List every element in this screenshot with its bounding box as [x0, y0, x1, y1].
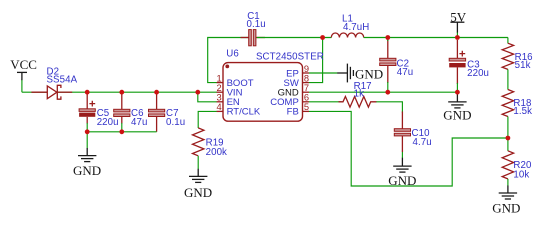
pin 2 VIN [217, 83, 243, 99]
svg-text:6: 6 [304, 93, 309, 103]
svg-text:8: 8 [304, 73, 309, 83]
ground below R19 [184, 169, 212, 200]
wire VCC stem green [21, 80, 23, 93]
svg-text:4: 4 [217, 102, 222, 112]
svg-text:51k: 51k [515, 60, 531, 71]
svg-text:SCT2450STER: SCT2450STER [256, 52, 324, 63]
inductor L1 4.7uH [331, 33, 363, 38]
capacitor C3 220u (polarized) [449, 40, 465, 84]
svg-text:4.7u: 4.7u [413, 137, 432, 148]
svg-text:0.1u: 0.1u [166, 117, 185, 128]
power port VCC [10, 57, 37, 80]
svg-text:200k: 200k [206, 147, 227, 158]
diode D2 SS54A [31, 85, 72, 99]
capacitor C1 0.1u [241, 30, 266, 46]
pin 7 GND [278, 83, 309, 99]
wire 5V stem green [456, 32, 458, 38]
capacitor C5 (polarized) [79, 92, 95, 123]
svg-text:FB: FB [287, 107, 299, 118]
resistor R20 10k [502, 151, 513, 179]
wire R16 to R18 [507, 69, 509, 89]
junction FB divider [506, 136, 511, 141]
svg-text:SS54A: SS54A [47, 75, 78, 86]
wire R18 to junction [507, 117, 509, 151]
resistor R19 200k [193, 128, 204, 156]
capacitor C10 4.7u [394, 112, 410, 153]
power port 5V [450, 9, 467, 32]
svg-text:3: 3 [217, 93, 222, 103]
wire C6 bottom [121, 123, 123, 132]
svg-text:RT/CLK: RT/CLK [227, 107, 261, 118]
junction C7 top [154, 90, 159, 95]
capacitor C2 47u [380, 40, 396, 83]
svg-text:7: 7 [304, 83, 309, 93]
junction C6 top [119, 90, 124, 95]
wire GND pin 7 rail [309, 91, 457, 93]
svg-text:VCC: VCC [10, 57, 37, 72]
pin 9 EP [286, 64, 309, 80]
wire C2 bottom [387, 82, 389, 92]
wire L1 to 5V rail corner [364, 37, 508, 39]
junction C3 bottom [455, 90, 460, 95]
svg-text:10k: 10k [513, 170, 529, 181]
junction C2 bottom [385, 90, 390, 95]
pin 6 COMP [270, 93, 309, 109]
svg-text:GND: GND [355, 67, 383, 82]
pin 5 FB [287, 102, 309, 118]
wire C5 bottom [86, 123, 88, 132]
svg-text:220u: 220u [467, 68, 489, 79]
svg-text:GND: GND [184, 185, 212, 200]
ground sideways at EP [337, 64, 383, 83]
svg-text:4.7uH: 4.7uH [343, 22, 369, 33]
svg-text:5: 5 [304, 102, 309, 112]
svg-text:0.1u: 0.1u [247, 19, 266, 30]
wire BOOT loop up to C1 [208, 38, 249, 83]
wire C10 to ground [401, 152, 403, 158]
svg-text:1k: 1k [354, 88, 364, 99]
ground below C3 [443, 92, 471, 123]
pin 1 BOOT [217, 73, 254, 89]
junction SW node [320, 35, 325, 40]
wire EP to sideways ground [309, 72, 337, 74]
wire COMP to R17 [309, 101, 341, 103]
svg-text:GND: GND [492, 201, 520, 216]
wire SW node down to pin 8 [309, 38, 323, 83]
resistor R17 1k [339, 97, 377, 108]
pin 8 SW [283, 73, 309, 89]
wire R19 to ground [197, 156, 199, 169]
wire main VCC rail to VIN [22, 91, 217, 93]
wire RT/CLK to R19 [198, 111, 217, 128]
resistor R18 1.5k [502, 90, 513, 117]
junction C5 top [85, 90, 90, 95]
wire FB route down and to divider [309, 111, 508, 186]
IC U6 SCT2450STER body [223, 63, 303, 122]
pin 3 EN [217, 93, 240, 109]
wire C3 bottom [456, 83, 458, 92]
junction C6 bottom [119, 129, 124, 134]
pin 4 RT/CLK [217, 102, 261, 118]
svg-text:220u: 220u [97, 117, 119, 128]
wire GND stem below C5 [86, 132, 88, 149]
svg-text:GND: GND [73, 163, 101, 178]
svg-text:9: 9 [304, 64, 309, 74]
wire EN branch vertical [198, 92, 217, 102]
capacitor C7 [149, 92, 165, 132]
ground below C5 [73, 148, 101, 178]
svg-text:1.5k: 1.5k [513, 106, 532, 117]
resistor R16 51k [502, 43, 513, 69]
svg-text:U6: U6 [226, 48, 239, 59]
svg-text:1: 1 [217, 73, 222, 83]
ground below C10 [388, 158, 416, 188]
svg-text:47u: 47u [397, 67, 413, 78]
wire capacitor bottom rail [87, 131, 156, 133]
junction L1 C2 top [385, 35, 390, 40]
junction 5V C3 top [455, 35, 460, 40]
svg-text:2: 2 [217, 83, 222, 93]
junction C5 bottom [85, 129, 90, 134]
svg-text:GND: GND [443, 108, 471, 123]
wire R20 to ground [507, 179, 509, 186]
junction EN branch [195, 90, 200, 95]
svg-text:47u: 47u [131, 117, 147, 128]
ground below R20 [492, 186, 520, 216]
capacitor C6 [114, 92, 130, 123]
wire 5V rail down to R16 [507, 38, 509, 44]
wire C2 top [387, 38, 389, 42]
wire R17 to C10 [376, 102, 402, 113]
wire C1 to SW node [257, 37, 332, 39]
